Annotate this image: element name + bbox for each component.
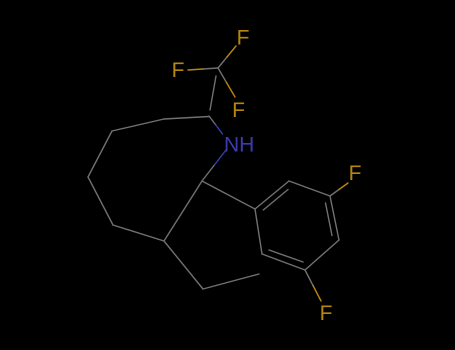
wire C-F bottom (CF3) — [218, 68, 235, 97]
wire C-F left (CF3) — [188, 68, 218, 70]
svg-text:F: F — [172, 59, 185, 82]
wire C3-C4 — [112, 119, 164, 131]
wire aryl C-F lower — [305, 270, 321, 301]
wire C5-C6 — [88, 177, 113, 225]
wire C-F top (CF3) — [218, 46, 236, 68]
wire C1-aryl ipso — [202, 181, 255, 209]
benzene inner double bond lines — [263, 190, 332, 263]
wire C4-C5 — [88, 131, 112, 177]
wire C2-C3 — [164, 117, 209, 120]
benzene ring edges — [255, 181, 339, 270]
svg-text:NH: NH — [224, 134, 254, 157]
wire N-C1 — [202, 150, 226, 181]
svg-text:F: F — [237, 27, 250, 50]
svg-text:F: F — [349, 162, 362, 185]
wire C7-C1 — [164, 181, 202, 241]
svg-text:F: F — [232, 99, 245, 122]
svg-text:F: F — [320, 302, 333, 325]
wire C8-C9 — [203, 274, 259, 289]
wire C2-N — [209, 116, 223, 134]
wire aryl C-F upper — [330, 183, 348, 196]
wire CF3 carbon to ring C2 — [210, 76, 216, 110]
wire C7-C8 — [164, 241, 203, 289]
wire C6-C7 — [113, 225, 164, 241]
